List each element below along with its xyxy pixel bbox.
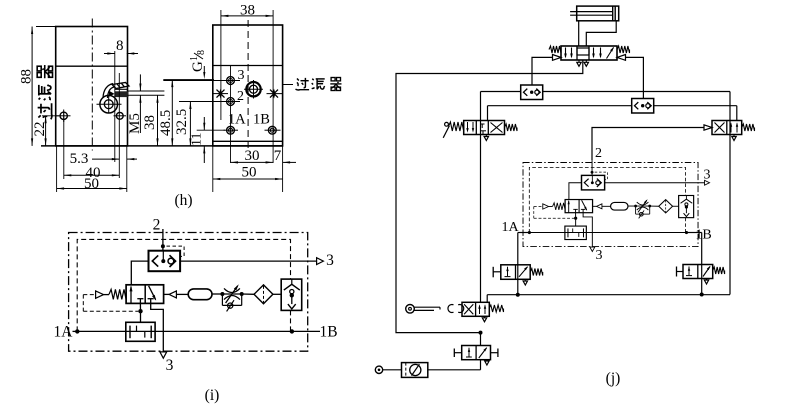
roller valve spring right	[505, 124, 518, 131]
shuttle valve left	[521, 85, 543, 100]
dimension 48.5	[163, 79, 214, 81]
supply wire	[383, 369, 402, 371]
key valve latch	[448, 304, 454, 312]
riser shuttle to valve	[569, 183, 582, 200]
svg-text:50: 50	[84, 176, 99, 192]
logic block boundary dash-dot	[69, 233, 308, 352]
5/2 right cell arrows	[593, 48, 595, 58]
svg-text:1B: 1B	[253, 112, 270, 128]
svg-text:1A: 1A	[228, 112, 246, 128]
left pilot wire	[532, 57, 553, 85]
air service unit	[402, 363, 428, 378]
view2 vertical centerline	[247, 20, 249, 150]
inner dashed enclosure	[529, 167, 685, 232]
pilot dashed line	[83, 294, 95, 296]
filter diamond	[254, 285, 273, 304]
port column left	[220, 10, 222, 120]
roller lever valve 3/2 left	[464, 121, 505, 135]
check valve unit	[679, 195, 694, 217]
junction dot 1B	[290, 329, 294, 333]
cylinder	[577, 6, 619, 21]
pilot valve 3/2 right	[712, 121, 742, 135]
hole 2	[227, 98, 235, 106]
svg-text:22: 22	[32, 122, 48, 137]
port 1B line stub	[292, 330, 320, 332]
label G1/8	[189, 50, 207, 72]
pilot feedback dashed riser	[533, 206, 535, 218]
valve right cell exhaust arrow	[582, 200, 587, 210]
throttle valve with knob	[634, 205, 637, 208]
main line 1A-1B	[529, 232, 686, 234]
view1 big counterbore hole	[100, 95, 118, 113]
cylinder left port line	[578, 21, 580, 46]
supply return wire long	[396, 60, 583, 333]
svg-text:1: 1	[189, 56, 200, 61]
output 3 arrow	[705, 180, 710, 185]
hole 1A	[227, 126, 235, 134]
port 2 stem	[591, 160, 593, 175]
center hole	[246, 82, 260, 96]
svg-text:(i): (i)	[205, 387, 220, 404]
1B wire down	[686, 232, 701, 234]
pilot spring	[553, 203, 566, 210]
main 3/2 valve body	[126, 285, 164, 304]
svg-text:1A: 1A	[54, 324, 74, 341]
exhaust 3 arrow	[590, 247, 595, 251]
shuttle pilot dashed bracket	[595, 172, 608, 179]
view1 small hole right	[116, 112, 123, 119]
5/2 left pilot triangle	[553, 55, 562, 61]
right pilot line	[164, 293, 169, 295]
view1 small hole left	[60, 112, 67, 119]
output 3 arrow	[317, 258, 324, 265]
view1 bottom extension lines	[56, 146, 58, 192]
view1 fitting elbow with hatch	[103, 83, 129, 99]
svg-text:8: 8	[196, 50, 207, 55]
svg-text:(j): (j)	[606, 370, 621, 387]
svg-text:7: 7	[274, 148, 282, 164]
dimension 88	[36, 26, 55, 28]
button valve 1A exhaust	[524, 279, 526, 281]
start valve exhaust	[486, 360, 488, 361]
svg-text:30: 30	[245, 148, 260, 164]
exhaust 3 path	[583, 213, 592, 247]
dimension 38 left	[157, 95, 159, 146]
svg-text:3: 3	[238, 68, 245, 83]
start valve push pins	[453, 349, 455, 358]
junction dot 1B	[685, 231, 688, 234]
pilot feedback dashed riser	[82, 295, 84, 312]
trunk wire right	[729, 92, 731, 295]
side port X right	[270, 90, 278, 98]
port 2 stem	[162, 229, 164, 251]
shuttle valve OR	[149, 251, 181, 272]
trunk wire left	[480, 92, 482, 303]
pilot spring	[109, 289, 126, 299]
main 3/2 valve body	[565, 200, 592, 213]
bus corner down to key valve	[486, 295, 488, 303]
hole 3	[227, 77, 235, 85]
valve left cell flow arrow	[568, 201, 570, 213]
view2 inner bottom line	[213, 140, 283, 142]
exhaust 3 arrow	[160, 352, 167, 358]
key valve spring	[489, 305, 504, 312]
pilot triangle	[96, 291, 104, 298]
view1 fitting arrow	[109, 91, 115, 97]
junction dot on 2 stem	[591, 171, 594, 174]
svg-text:2: 2	[595, 146, 602, 161]
svg-text:2: 2	[237, 89, 244, 104]
supply wire 2	[428, 369, 481, 371]
junction dot 1A	[528, 231, 531, 234]
view1 vertical centerline	[91, 19, 93, 151]
valve right cell blocked port	[148, 298, 154, 300]
dimension 11	[197, 129, 225, 131]
button valve 1B exhaust	[706, 279, 708, 281]
signal 2 pilot wire	[592, 128, 704, 161]
dimension 32.5	[179, 101, 214, 103]
check valve unit	[281, 279, 302, 310]
main 5/2 valve	[561, 46, 617, 60]
capsule timer volume	[611, 202, 628, 210]
svg-text:11: 11	[190, 133, 205, 146]
svg-text:1B: 1B	[319, 324, 337, 341]
port column right	[272, 10, 274, 163]
svg-text:3: 3	[704, 168, 711, 183]
bus drops left	[487, 106, 489, 121]
line diamond to check unit	[273, 293, 281, 295]
5/2 right pilot triangle	[617, 55, 626, 61]
5/2 exhaust left	[578, 60, 580, 63]
riser shuttle to valve	[131, 261, 148, 285]
svg-text:G: G	[190, 61, 206, 72]
button valve 1B	[683, 265, 713, 279]
key valve exhaust	[484, 316, 486, 318]
view2 body outline	[213, 25, 283, 146]
view2 bottom extension lines	[212, 146, 214, 192]
5/2 exhaust right	[585, 60, 587, 63]
svg-text:2: 2	[153, 217, 161, 234]
M5 thread port lines	[128, 90, 165, 92]
view2 inner top line	[213, 65, 283, 67]
svg-text:3: 3	[596, 248, 603, 263]
svg-text:50: 50	[242, 165, 257, 181]
valve left cell flow arrow	[130, 287, 132, 304]
shuttle valve right	[632, 99, 654, 114]
svg-text:3: 3	[326, 252, 334, 269]
right pilot line	[593, 205, 597, 207]
air source circle	[375, 366, 382, 373]
line capsule to throttle	[628, 205, 636, 207]
label guolvqi horizontal	[296, 78, 342, 91]
hole 1B	[268, 126, 276, 134]
lower bus wire	[487, 294, 730, 296]
circuit j logic block small	[523, 160, 710, 251]
junction dot 1A	[75, 329, 79, 333]
key valve	[462, 302, 489, 316]
right pilot triangle	[169, 291, 176, 298]
5/2 left cell arrows	[565, 48, 567, 58]
svg-text:48.5: 48.5	[158, 110, 174, 136]
filter diamond	[659, 200, 673, 213]
junction dot 1A lower	[516, 293, 520, 297]
roller lever	[445, 122, 449, 126]
svg-text:38: 38	[142, 115, 158, 130]
hole column center	[230, 66, 232, 163]
5/2 right spring	[617, 46, 630, 53]
right pilot wire	[626, 57, 643, 98]
key	[406, 305, 415, 314]
svg-text:M5: M5	[127, 113, 143, 134]
right pilot triangle	[597, 204, 602, 209]
svg-text:8: 8	[116, 38, 124, 54]
roller valve spring left	[449, 122, 464, 131]
capsule timer volume	[188, 289, 212, 300]
shared bottom reference line	[41, 145, 283, 147]
main line 1A-1B	[77, 330, 292, 332]
svg-text:3: 3	[166, 357, 174, 374]
circuit i logic block	[69, 229, 324, 358]
5/2 left spring	[549, 46, 561, 53]
shuttle valve OR	[582, 175, 605, 190]
pilot triangle right valve	[704, 125, 712, 130]
view1 body outline	[56, 27, 128, 146]
wire dot to start valve	[480, 333, 482, 346]
start valve bottom port	[480, 360, 482, 370]
dimension M5	[139, 74, 141, 91]
pilot triangle	[543, 204, 549, 209]
cylinder right port line	[586, 21, 616, 46]
label guolvqi vertical	[37, 65, 52, 119]
guolvqi leader line	[283, 84, 293, 86]
impulse counter valve	[126, 322, 155, 341]
valve left cell blocked port	[573, 208, 577, 210]
svg-text:88: 88	[19, 69, 35, 84]
valve right cell exhaust arrow	[149, 286, 156, 300]
pilot dashed line	[534, 205, 543, 207]
junction dot 1B lower	[700, 293, 704, 297]
button valve 1A	[501, 265, 530, 280]
output 3 line	[605, 182, 705, 184]
right valve exhaust	[733, 135, 735, 137]
valve right cell blocked port	[581, 208, 585, 210]
line diamond to check unit	[673, 205, 679, 207]
bus drops right	[736, 106, 738, 121]
throttle valve with knob	[220, 292, 224, 296]
side port X left	[217, 90, 225, 98]
bus wire upper	[481, 91, 521, 93]
line capsule to throttle	[212, 293, 222, 295]
output 3 line	[180, 260, 317, 262]
view1 fitting port lines	[115, 88, 129, 90]
bottom start valve	[462, 346, 491, 360]
impulse counter valve	[565, 226, 586, 239]
port 1A line stub	[73, 330, 78, 332]
svg-text:1A: 1A	[501, 220, 519, 235]
exhaust 3 path	[151, 303, 164, 352]
valve bottom port to impulse valve	[139, 303, 141, 311]
shuttle pilot dashed bracket	[167, 246, 185, 256]
valve left cell blocked port	[137, 298, 143, 300]
logic block boundary dash-dot	[523, 163, 698, 247]
svg-text:(h): (h)	[174, 192, 192, 209]
dimension 22	[42, 115, 59, 117]
right valve spring	[742, 124, 755, 131]
1A wire down	[518, 232, 530, 234]
inner dashed enclosure	[77, 239, 290, 331]
bus wire lower	[488, 105, 632, 107]
hole extension line a	[114, 51, 116, 162]
G1/8 leader arrow	[203, 66, 205, 72]
roller valve exhaust	[485, 135, 487, 137]
junction dot on 2 stem	[161, 244, 165, 248]
junction dot key line	[479, 331, 483, 335]
hole extension line b	[118, 73, 120, 178]
svg-text:32.5: 32.5	[174, 109, 190, 135]
valve bottom port to impulse valve	[575, 213, 577, 219]
view1 inner split line	[56, 65, 128, 67]
svg-text:1B: 1B	[695, 228, 711, 243]
